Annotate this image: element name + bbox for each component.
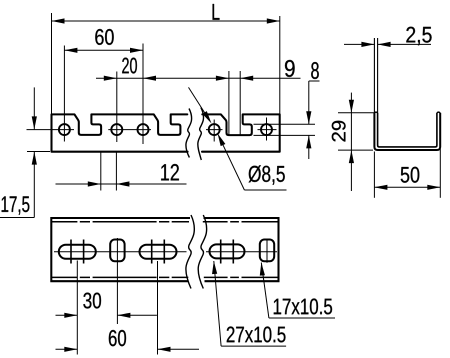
slot A3 oval 27x10.5 <box>210 244 245 258</box>
arrow 50 right <box>427 185 440 190</box>
hole H1 <box>59 124 70 135</box>
slot A2 oval 27x10.5 <box>140 245 177 259</box>
dim 20-9 shared body <box>117 77 143 79</box>
leader 27x10.5 <box>214 261 221 346</box>
centerline H1 horizontal (extends left for 17,5 dim) <box>27 129 75 131</box>
dim 12 ext left <box>100 153 102 191</box>
dim L left ext (rail edge extended) <box>51 13 53 114</box>
centerline H3 vertical / 60,20-dim ext <box>142 44 144 145</box>
section U outer <box>374 113 440 150</box>
arrow 60b right (points left) <box>158 347 171 352</box>
inner top line segments (gaps at notch walls) <box>51 221 189 223</box>
arrow 60b left (points right) <box>64 347 77 352</box>
dim 60 left body <box>56 348 78 350</box>
17x10.5 shelf <box>269 317 335 319</box>
arrow 60 left <box>64 48 77 53</box>
verticals over slot A1 <box>70 240 72 264</box>
centerline H5 vertical <box>266 118 268 141</box>
hole H5 <box>261 124 272 135</box>
dim 2,5 left body <box>344 43 374 45</box>
label 27x10.5 <box>227 326 286 342</box>
arrow 8 top (points down) <box>306 111 311 124</box>
dim 2,5 right body <box>378 43 431 45</box>
dim 12 left arrow body <box>56 183 101 185</box>
dim 8 shelf <box>309 80 320 82</box>
leader to hole H4 upper <box>189 87 207 115</box>
arrow 30 left (points right) <box>64 313 77 318</box>
dim 30 right body <box>117 314 156 316</box>
dim 17,5 shelf <box>0 217 34 219</box>
arrow 2,5 right (points left) <box>378 42 391 47</box>
arrow leader 17x10.5 (points up) <box>260 263 265 276</box>
arrow 20 right (outside, points left) <box>143 76 156 81</box>
label 20 <box>122 58 137 74</box>
slot B1 vertical centerline / 30-dim ext <box>116 238 118 324</box>
section U inner <box>378 113 437 147</box>
dim 8 vertical upper <box>308 81 310 124</box>
arrow L right <box>267 18 280 23</box>
dim 12 right arrow body <box>116 183 186 185</box>
slot B1 vertical 17x10.5 <box>110 240 124 262</box>
bottom view horizontal centerline right <box>206 251 277 253</box>
break squiggle right (side view) <box>198 108 204 160</box>
ext slot A2 center <box>157 261 159 355</box>
arrow leader H4 upper (points down-right) <box>202 111 211 123</box>
label 17x10.5 <box>274 298 332 314</box>
dim 9 right tail <box>229 77 240 79</box>
slot A1 oval 27x10.5 <box>59 245 96 259</box>
label 17,5 <box>2 196 30 214</box>
arrow 17,5 bottom (points up) <box>32 152 37 165</box>
dim 29 tick top <box>338 112 374 114</box>
hole H2 <box>111 124 122 135</box>
label L <box>213 4 220 20</box>
dim L line <box>52 20 280 22</box>
arrow 12 right (points left) <box>116 181 129 186</box>
label 12 <box>161 164 179 180</box>
arrow 50 left <box>374 185 387 190</box>
arrow 60 right <box>130 48 143 53</box>
label 8 <box>311 62 319 79</box>
rail outline right portion <box>202 114 280 151</box>
27x10.5 shelf <box>221 345 286 347</box>
slot B2 vertical 17x10.5 <box>260 240 274 262</box>
centerline H4 vertical <box>213 120 215 142</box>
dim 50 ext left <box>373 152 375 198</box>
centerline H5 horizontal <box>258 129 277 131</box>
dim 8 vertical lower <box>308 135 310 159</box>
dim 17,5 bottom tick <box>27 151 50 153</box>
arrow 2,5 left (points right) <box>361 42 374 47</box>
label 9 <box>285 60 295 77</box>
arrow 9 right (outside, points left) <box>240 76 253 81</box>
break squiggle right (bottom view) <box>198 215 206 289</box>
centerline H2-H3 horizontal <box>108 129 151 131</box>
dim 60 line <box>64 49 143 51</box>
top outer edge left part <box>51 218 190 281</box>
centerlines <box>27 44 277 145</box>
rail outline left portion with keyhole notches <box>52 114 188 151</box>
Ø8,5 shelf <box>244 189 286 191</box>
arrow 29 bottom (points up) <box>349 150 354 163</box>
arrow leader Ø8,5 (points up-left) <box>218 133 226 146</box>
label 30 <box>83 293 101 309</box>
arrow 30 right (points left) <box>117 313 130 318</box>
arrow 8 bottom (points up) <box>306 135 311 148</box>
break squiggle left (bottom view) <box>186 215 194 289</box>
arrow 9 left (outside, points right) <box>216 76 229 81</box>
hole H3 <box>138 124 149 135</box>
top outer edge right part <box>204 218 279 281</box>
arrow 17,5 top (points down) <box>32 116 37 129</box>
label 2,5 <box>406 27 431 46</box>
label 60 bottom <box>109 330 126 346</box>
centerline H1 vertical / 60-dim ext <box>63 46 65 142</box>
dim 60 right body <box>158 348 200 350</box>
section wall extension double line <box>374 38 377 113</box>
label 50 <box>401 167 420 183</box>
label Ø8,5 <box>249 165 285 184</box>
verticals over slot A2 <box>151 240 153 264</box>
arrow 12 left (points right) <box>88 181 101 186</box>
bottom view horizontal centerline left <box>54 251 187 253</box>
dim 17,5 vertical <box>33 87 35 129</box>
label 60 top <box>95 29 113 45</box>
dim 9 ext right <box>239 71 241 135</box>
dim 50 line <box>374 186 440 188</box>
dim 29 tick bottom <box>338 149 373 151</box>
arrow 29 top (points down) <box>349 100 354 113</box>
leader 17x10.5 <box>261 263 269 319</box>
break squiggle left (side view) <box>186 109 192 158</box>
hole H4 <box>209 124 220 135</box>
dim 8 ext upper <box>254 123 316 125</box>
dim 9 ext left <box>228 71 230 135</box>
leader from Ø8,5 text <box>222 142 245 190</box>
arrow L left <box>52 18 65 23</box>
through-slot verticals over ovals <box>71 240 233 264</box>
arrowheads side view <box>32 18 312 186</box>
dim 20/9 line left arrow body <box>96 77 117 79</box>
arrow 20 left (outside, points right) <box>104 76 117 81</box>
dim 8 ext lower <box>254 134 316 136</box>
dim 50 ext right <box>439 149 441 198</box>
centerline H2 vertical / 20-dim ext <box>116 72 118 143</box>
slot B2 vertical centerline <box>266 239 268 263</box>
inner bottom line segments <box>51 276 188 278</box>
centerline H4 horizontal <box>206 129 223 131</box>
wall top caps <box>374 111 440 114</box>
ext slot A1 center <box>76 261 78 355</box>
dim L right ext <box>279 16 281 114</box>
arrow leader 27x10.5 (points up) <box>212 261 217 274</box>
dim 29 vertical <box>350 93 352 191</box>
label 29 (rotated) <box>332 121 346 142</box>
dim 12 ext right <box>115 153 117 191</box>
dim 30 left body <box>56 314 78 316</box>
verticals over slot A3 <box>220 240 222 264</box>
